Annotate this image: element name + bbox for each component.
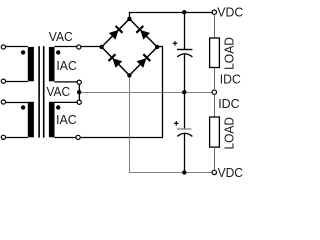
wire capacitor C2 to bottom rail (184, 134, 186, 173)
bridge rectifier arms (wires) (102, 19, 158, 76)
wire bridge arm R-T (129, 19, 157, 47)
node bridge top (127, 17, 131, 21)
wire bridge top vertical (129, 12, 131, 19)
wire load 2 to VDC terminal (214, 147, 216, 170)
load resistor R2 box (210, 117, 220, 147)
wire T1 primary top (6, 46, 28, 48)
svg-text:VAC: VAC (47, 84, 71, 99)
svg-text:LOAD: LOAD (221, 37, 236, 70)
wire top rail (+VDC) (129, 12, 212, 14)
terminal IDC middle (212, 90, 216, 94)
wire T1 secondary top to bridge (81, 46, 102, 48)
terminal T2 secondary bottom (76, 135, 80, 139)
wire bridge arm B-R (129, 47, 157, 75)
wire middle rail (center tap to IDC terminal) (81, 92, 212, 94)
wire load 1 to IDC terminal (214, 68, 216, 91)
svg-text:IAC: IAC (56, 58, 76, 73)
svg-text:IAC: IAC (56, 112, 77, 127)
svg-text:IDC: IDC (220, 72, 241, 87)
terminal T1 secondary top (77, 45, 81, 49)
terminal T2 primary top (1, 100, 5, 104)
wire T1 secondary top (to node A) (54, 46, 76, 48)
capacitor C1 top plate (177, 49, 192, 51)
wire bridge arm L-T (102, 19, 130, 47)
capacitor C1 curved plate (177, 54, 192, 57)
transformer T1 primary winding (28, 47, 34, 81)
transformer T2 primary phase dot (21, 105, 25, 109)
terminal VDC top (212, 10, 216, 14)
wire bridge right vertical (162, 47, 164, 139)
wire capacitor branch middle (184, 93, 186, 130)
transformer T2 primary winding (28, 102, 34, 138)
transformer T2 secondary phase dot (56, 105, 60, 109)
wire T1 secondary bottom (54, 81, 77, 83)
transformer T1 secondary phase dot (56, 50, 60, 54)
diode D1 (left node to top node) (109, 26, 123, 40)
transformer T1 secondary winding (49, 47, 55, 81)
node bridge bottom (127, 73, 131, 77)
capacitor C1 plus sign (173, 41, 178, 46)
wire T2 primary bottom (6, 137, 28, 139)
node middle rail / capacitor junction (182, 90, 186, 94)
terminal T1 secondary bottom (77, 80, 81, 84)
wire bridge right stub (157, 46, 163, 48)
wire T1 primary bottom (6, 81, 28, 83)
terminal T2 primary bottom (1, 135, 5, 139)
wire T2 secondary bottom (54, 137, 76, 139)
wire bottom rail (-VDC) (129, 172, 212, 174)
terminal VDC bottom (212, 170, 216, 174)
diode D4 (bottom node to right node) (136, 54, 150, 68)
svg-text:VDC: VDC (218, 165, 243, 180)
capacitor C2 top plate (177, 128, 191, 130)
wire bottom secondary to bridge right (horizontal) (80, 137, 163, 139)
svg-text:VDC: VDC (217, 5, 243, 20)
capacitor C2 plus sign (174, 121, 179, 126)
transformer T1 primary phase dot (21, 50, 25, 54)
diode D3 (bottom node to left node) (109, 54, 123, 68)
node bottom rail / capacitor junction (182, 170, 186, 174)
wire IDC terminal to load 2 (214, 95, 216, 117)
svg-text:LOAD: LOAD (221, 117, 236, 150)
wire T2 primary top (6, 102, 28, 104)
wire bridge arm B-L (102, 47, 130, 75)
wire T2 secondary top (54, 101, 77, 103)
transformer T1 core (39, 46, 44, 137)
wire VDC terminal to load 1 (214, 15, 216, 39)
terminal T1 primary bottom (1, 79, 5, 83)
node top rail / capacitor junction (182, 10, 186, 14)
wire capacitor C1 to middle rail (184, 54, 186, 92)
terminal T1 primary top (1, 45, 5, 49)
svg-text:VAC: VAC (49, 29, 73, 44)
terminal T2 secondary top (77, 100, 81, 104)
capacitor C2 curved plate (177, 133, 192, 136)
transformer T2 secondary winding (49, 102, 55, 138)
node bridge left (99, 45, 103, 49)
diode D2 (right node to top node) (136, 26, 150, 40)
node bridge right (155, 45, 159, 49)
wire bridge bottom vertical (to -rail) (129, 75, 131, 173)
load resistor R1 box (210, 38, 220, 68)
wire capacitor branch top (184, 13, 186, 50)
node center-tap junction (77, 90, 81, 94)
svg-text:IDC: IDC (218, 96, 239, 111)
wire center-tap link (78, 84, 80, 100)
